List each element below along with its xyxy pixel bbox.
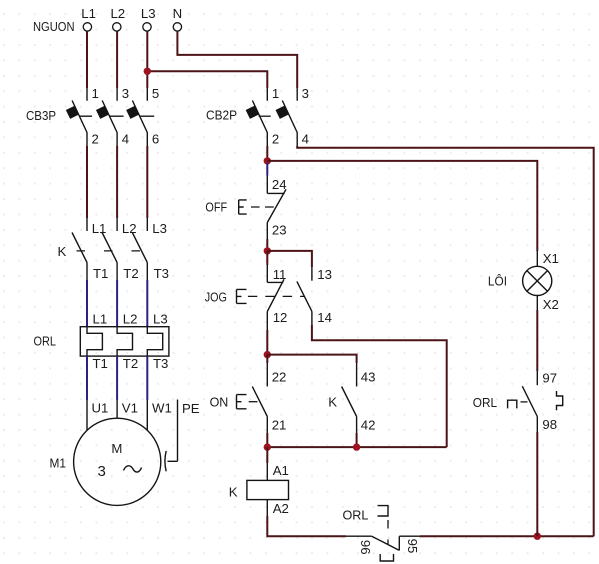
svg-text:L2: L2 xyxy=(123,312,138,327)
overload relay ORL box xyxy=(34,327,169,356)
svg-text:N: N xyxy=(173,6,183,21)
svg-text:22: 22 xyxy=(272,370,287,385)
wire K pole1 to ORL (blue) xyxy=(86,280,88,327)
svg-text:2: 2 xyxy=(272,131,279,146)
svg-text:V1: V1 xyxy=(122,400,138,415)
breaker CB3P pole3 pins 5-6 xyxy=(126,86,159,147)
terminal L2 xyxy=(110,6,125,31)
ORL heater element pole1 xyxy=(87,312,108,372)
svg-text:NGUON: NGUON xyxy=(33,19,75,34)
svg-text:U1: U1 xyxy=(92,400,109,415)
pushbutton OFF (NC) pins 24-23 xyxy=(267,176,286,240)
svg-text:3: 3 xyxy=(98,463,106,480)
contactor K linkage dashes xyxy=(77,250,141,252)
ORL heater element pole3 xyxy=(147,312,168,372)
wire lamp X2 to ORL 97 xyxy=(536,310,538,371)
svg-text:ORL: ORL xyxy=(34,334,57,349)
breaker CB2P linkage dash xyxy=(259,115,271,117)
wire node B to JOG aux pin13 xyxy=(267,251,312,267)
contact K aux (NO) pins 43-42 xyxy=(328,363,375,433)
svg-text:M: M xyxy=(111,441,122,456)
wire coil A2 to ORL contact 96 xyxy=(267,516,346,536)
wire L3 branch to CB2P pole1 xyxy=(147,71,267,88)
svg-text:43: 43 xyxy=(361,370,376,385)
wire CB2P pin2 to node A xyxy=(266,146,268,159)
overload ORL bottom actuator and label xyxy=(343,506,394,561)
contactor K label xyxy=(58,244,67,259)
terminal L1 xyxy=(81,6,96,31)
svg-text:11: 11 xyxy=(273,267,287,282)
svg-text:A1: A1 xyxy=(273,463,289,478)
node F junction xyxy=(534,533,541,540)
svg-text:5: 5 xyxy=(152,86,159,101)
node C junction xyxy=(264,351,271,358)
breaker CB3P linkage dashes xyxy=(79,115,154,117)
svg-text:3: 3 xyxy=(302,86,309,101)
wire ORL T3 to motor (blue) xyxy=(146,356,148,400)
svg-text:W1: W1 xyxy=(152,400,172,415)
svg-text:K: K xyxy=(328,395,337,410)
breaker CB3P pole1 pins 1-2 xyxy=(66,86,99,147)
svg-text:6: 6 xyxy=(152,131,159,146)
wire L1 terminal to CB3P pole1 xyxy=(86,31,88,88)
wire node C to K aux contact xyxy=(267,355,356,363)
svg-text:T3: T3 xyxy=(154,266,169,281)
wire JOG pin12 to node C xyxy=(266,330,268,355)
wire JOG pin14 to bottom rail corner xyxy=(312,325,447,448)
svg-text:ORL: ORL xyxy=(473,395,497,410)
wire node A to lamp branch xyxy=(267,161,537,251)
svg-text:4: 4 xyxy=(122,131,129,146)
wire CB3P pole1 to contactor K pole1 xyxy=(86,146,88,218)
wire CB3P pole3 to contactor K pole3 xyxy=(146,146,148,218)
breaker CB3P pole2 pins 3-4 xyxy=(96,86,129,147)
wire ORL 95 to node F and outer rail xyxy=(420,535,594,537)
node A junction xyxy=(264,157,271,164)
contactor K power contact pole1 xyxy=(72,218,108,281)
wire L3 terminal to CB3P pole3 xyxy=(146,31,148,88)
svg-text:X1: X1 xyxy=(543,251,559,266)
overload contact ORL 97-98 (NO, vertical) xyxy=(522,371,557,432)
svg-text:L2: L2 xyxy=(110,6,125,21)
svg-text:1: 1 xyxy=(272,86,279,101)
overload contact ORL 96-95 (NC, horizontal) xyxy=(346,536,420,554)
svg-text:24: 24 xyxy=(272,177,287,192)
svg-text:4: 4 xyxy=(302,131,309,146)
terminal N xyxy=(173,6,183,31)
node E junction xyxy=(264,443,271,450)
pushbutton JOG actuator xyxy=(205,289,305,304)
breaker CB3P label xyxy=(26,108,56,123)
wire K aux pin42 to node D xyxy=(356,433,358,447)
label NGUON xyxy=(33,19,75,34)
svg-text:T1: T1 xyxy=(93,266,108,281)
wire ORL T1 to motor (blue) xyxy=(86,356,88,400)
svg-text:T2: T2 xyxy=(123,356,138,371)
node D junction xyxy=(353,443,360,450)
terminal L3 xyxy=(141,6,156,31)
wire K pole2 to ORL (blue) xyxy=(116,280,118,327)
svg-text:CB2P: CB2P xyxy=(206,107,237,122)
svg-text:JOG: JOG xyxy=(205,289,227,304)
svg-text:L2: L2 xyxy=(122,221,137,236)
breaker CB2P label xyxy=(206,107,237,122)
svg-text:T1: T1 xyxy=(93,356,108,371)
svg-text:K: K xyxy=(58,244,67,259)
svg-text:1: 1 xyxy=(92,86,99,101)
wire node B to JOG pin11 xyxy=(266,251,268,265)
wire CB2P pin4 to right outer rail xyxy=(297,146,594,536)
svg-text:PE: PE xyxy=(182,401,200,416)
svg-text:23: 23 xyxy=(272,222,287,237)
svg-text:97: 97 xyxy=(542,371,557,386)
svg-text:K: K xyxy=(229,484,238,499)
junction on L3 wire xyxy=(144,68,151,75)
wire OFF to node B xyxy=(266,239,268,251)
svg-text:95: 95 xyxy=(405,539,420,554)
svg-text:3: 3 xyxy=(122,86,129,101)
pushbutton OFF actuator xyxy=(205,199,273,214)
svg-text:L3: L3 xyxy=(141,6,156,21)
wire ORL T2 to motor (blue) xyxy=(116,356,118,400)
pushbutton JOG NC contact pins 11-12 xyxy=(267,265,287,330)
contactor K power contact pole3 xyxy=(132,218,169,281)
contactor K power contact pole2 xyxy=(102,218,139,281)
wire K pole3 to ORL (blue) xyxy=(146,280,148,327)
wire L2 terminal to CB3P pole2 xyxy=(116,31,118,88)
motor PE terminal xyxy=(165,400,200,472)
svg-text:L3: L3 xyxy=(153,312,168,327)
lamp LOI pins X1-X2 xyxy=(488,251,559,312)
wire ORL 98 to node F xyxy=(536,432,538,536)
pushbutton JOG NO contact pins 13-14 xyxy=(297,267,332,325)
svg-text:ORL: ORL xyxy=(343,507,369,522)
svg-text:21: 21 xyxy=(272,417,287,432)
ORL heater element pole2 xyxy=(117,312,138,372)
wire CB3P pole2 to contactor K pole2 xyxy=(116,146,118,218)
wire node E to coil K xyxy=(266,447,268,463)
svg-text:T3: T3 xyxy=(153,356,168,371)
svg-text:13: 13 xyxy=(317,267,332,282)
svg-text:M1: M1 xyxy=(50,456,67,471)
motor M1 circle xyxy=(50,418,161,505)
svg-text:12: 12 xyxy=(273,310,288,325)
svg-text:A2: A2 xyxy=(273,501,289,516)
pushbutton ON actuator xyxy=(210,395,258,410)
svg-text:L1: L1 xyxy=(93,312,108,327)
pushbutton ON (NO) pins 22-21 xyxy=(252,363,286,433)
svg-text:CB3P: CB3P xyxy=(26,108,56,123)
overload ORL right actuator and label xyxy=(473,391,563,410)
svg-text:2: 2 xyxy=(92,131,99,146)
svg-text:T2: T2 xyxy=(123,266,138,281)
motor M1 pins U1 V1 W1 xyxy=(87,400,172,430)
coil K pins A1-A2 xyxy=(229,463,289,516)
svg-text:X2: X2 xyxy=(543,297,559,312)
wire bottom rail node E to corner xyxy=(267,446,446,448)
svg-text:98: 98 xyxy=(542,417,557,432)
svg-text:LÔI: LÔI xyxy=(488,273,507,288)
svg-text:L3: L3 xyxy=(152,221,167,236)
svg-text:42: 42 xyxy=(361,417,376,432)
node B junction xyxy=(264,247,271,254)
breaker CB2P pole1 pins 1-2 xyxy=(246,86,280,147)
wire N terminal to CB2P pole2 xyxy=(177,31,297,88)
svg-text:14: 14 xyxy=(317,310,332,325)
wire node C to ON xyxy=(266,355,268,363)
svg-text:L1: L1 xyxy=(81,6,96,21)
svg-text:ON: ON xyxy=(210,395,229,410)
svg-text:L1: L1 xyxy=(92,221,107,236)
svg-text:96: 96 xyxy=(358,540,373,555)
wire ON pin21 to node E xyxy=(266,433,268,447)
svg-text:OFF: OFF xyxy=(205,199,227,214)
wire node A to OFF (blue segment) xyxy=(266,163,268,176)
breaker CB2P pole2 pins 3-4 xyxy=(276,86,309,147)
